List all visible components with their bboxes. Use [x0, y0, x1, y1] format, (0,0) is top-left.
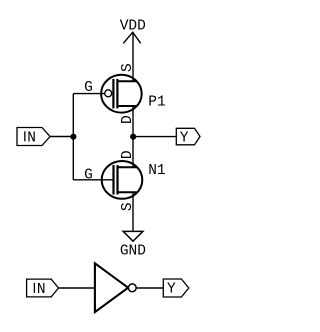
P1 channel bar: [116, 79, 118, 109]
wire input vertical: [72, 94, 74, 180]
ipin IN tag (inverter test): [27, 279, 59, 297]
junction dot output node: [130, 134, 136, 140]
N1 gate bar: [112, 165, 114, 194]
wire N1 source to GND: [132, 192, 134, 231]
P1 gate bar: [112, 79, 114, 109]
gnd symbol triangle: [123, 231, 143, 241]
IN tag text letter I: [24, 131, 26, 141]
P1 source lead: [117, 80, 136, 82]
inverter output bubble: [128, 284, 136, 292]
svg-text:N1: N1: [148, 163, 165, 179]
svg-text:N: N: [27, 130, 36, 146]
opin Y tag: [176, 128, 200, 145]
svg-text:G: G: [84, 168, 93, 184]
wire N1 gate: [73, 179, 112, 181]
junction dot input node: [70, 134, 76, 140]
wire IN to junction: [50, 136, 73, 138]
N1 drain lead: [118, 166, 137, 168]
N1 source lead: [118, 191, 137, 193]
nmos N1 body circle: [102, 161, 143, 199]
svg-text:P1: P1: [148, 94, 165, 110]
P1 gate bubble: [105, 90, 112, 97]
pmos P1 body circle: [101, 75, 142, 113]
svg-text:Y: Y: [180, 131, 189, 147]
N1 channel bar: [116, 165, 118, 194]
svg-text:GND: GND: [120, 244, 146, 260]
wire output to Y: [133, 136, 176, 138]
P1 drain lead: [117, 105, 136, 107]
inverter U1 triangle: [95, 263, 128, 312]
wire IN to inverter: [59, 287, 95, 289]
wire inverter to Y: [137, 287, 164, 289]
opin Y tag (inverter test): [163, 279, 189, 297]
svg-text:Y: Y: [167, 281, 176, 297]
wire P1 gate: [73, 93, 105, 95]
IN tag text letter I (inverter test): [33, 283, 35, 293]
VDD supply arrow: [123, 32, 140, 43]
wire output rail P1 drain to N1 drain: [132, 106, 134, 167]
svg-text:D: D: [120, 150, 136, 159]
ipin IN tag: [17, 128, 50, 146]
svg-text:S: S: [120, 63, 136, 72]
svg-text:N: N: [37, 282, 46, 298]
wire VDD to P1 source: [132, 32, 134, 81]
